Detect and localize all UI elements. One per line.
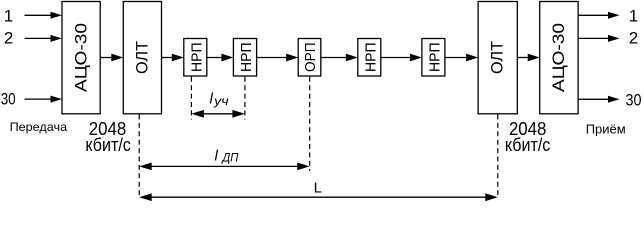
svg-text:2: 2 — [629, 28, 638, 47]
label l_уч — [210, 90, 229, 108]
svg-text:30: 30 — [626, 90, 642, 109]
svg-text:L: L — [314, 180, 322, 197]
svg-text:Передача: Передача — [10, 120, 68, 134]
dimension arrow L — [139, 193, 498, 201]
label 2048 кбит/с transmit — [85, 119, 131, 155]
wire НРП1 to НРП2 — [207, 54, 234, 62]
wire НРП4 to ОЛТ receive — [445, 54, 478, 62]
label l_ДП — [215, 147, 240, 164]
svg-text:уч: уч — [213, 94, 229, 108]
wire НРП2 to ОРП — [257, 54, 299, 62]
svg-text:Приём: Приём — [586, 121, 626, 136]
extension line ОЛТ transmit (dashed) — [138, 115, 140, 198]
output arrow 2 — [578, 35, 619, 42]
block АЦО-30 receive — [540, 2, 578, 114]
svg-text:ОЛТ: ОЛТ — [488, 41, 507, 74]
svg-text:30: 30 — [1, 89, 16, 108]
input arrow 2 — [25, 35, 63, 42]
extension line ОЛТ receive (dashed) — [497, 115, 499, 198]
svg-text:НРП: НРП — [238, 42, 255, 71]
label 2048 кбит/с receive — [505, 119, 551, 155]
output arrow 30 — [578, 96, 619, 103]
svg-text:НРП: НРП — [188, 42, 205, 71]
extension line НРП1 (dashed) — [190, 77, 192, 120]
svg-text:кбит/с: кбит/с — [85, 135, 131, 155]
dimension arrow l_ДП — [139, 163, 310, 171]
input arrow 1 — [25, 12, 63, 19]
block АЦО-30 transmit — [62, 2, 100, 114]
output arrow 1 — [578, 12, 619, 19]
svg-text:ДП: ДП — [220, 152, 239, 164]
block ОРП — [298, 39, 321, 77]
dimension arrow l_уч — [191, 110, 245, 118]
svg-text:НРП: НРП — [362, 42, 379, 71]
wire АЦО-30 to ОЛТ transmit — [100, 54, 123, 62]
svg-text:ОРП: ОРП — [302, 42, 319, 71]
svg-text:1: 1 — [4, 7, 13, 26]
svg-text:1: 1 — [629, 7, 638, 26]
svg-text:АЦО-30: АЦО-30 — [72, 23, 91, 92]
block НРП2 — [233, 39, 256, 77]
extension line НРП2 (dashed) — [244, 77, 246, 120]
extension line ОРП (dashed) — [309, 77, 311, 171]
svg-text:ОЛТ: ОЛТ — [133, 41, 152, 74]
block ОЛТ receive — [478, 2, 517, 114]
wire ОРП to НРП3 — [321, 54, 358, 62]
block НРП4 — [422, 39, 445, 77]
svg-text:кбит/с: кбит/с — [505, 135, 551, 155]
wire ОЛТ to АЦО-30 receive — [517, 54, 539, 62]
wire НРП3 to НРП4 — [381, 54, 422, 62]
block НРП1 — [184, 39, 207, 77]
svg-text:2: 2 — [4, 28, 13, 47]
svg-text:НРП: НРП — [426, 42, 443, 71]
wire ОЛТ to НРП1 — [162, 54, 184, 62]
block ОЛТ transmit — [123, 2, 161, 114]
svg-text:АЦО-30: АЦО-30 — [549, 23, 568, 92]
block НРП3 — [358, 39, 381, 77]
input arrow 30 — [25, 96, 63, 103]
